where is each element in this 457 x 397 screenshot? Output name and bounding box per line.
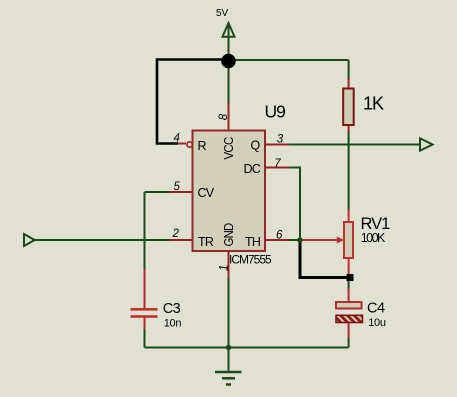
svg-text:3: 3 (277, 134, 284, 146)
svg-text:10u: 10u (368, 317, 386, 329)
svg-text:TR: TR (198, 235, 214, 249)
svg-text:8: 8 (218, 113, 230, 120)
svg-text:C4: C4 (367, 300, 385, 316)
svg-text:5V: 5V (216, 8, 229, 19)
svg-text:Q: Q (251, 139, 261, 153)
svg-text:1K: 1K (363, 93, 384, 113)
svg-text:R: R (198, 139, 207, 153)
svg-text:VCC: VCC (222, 137, 236, 160)
svg-text:U9: U9 (265, 101, 286, 121)
svg-text:GND: GND (222, 223, 236, 247)
svg-text:ICM7555: ICM7555 (229, 253, 272, 267)
svg-text:10n: 10n (164, 318, 182, 330)
svg-text:1: 1 (219, 265, 231, 271)
svg-text:TH: TH (245, 235, 261, 249)
svg-text:100K: 100K (361, 231, 386, 245)
svg-text:7: 7 (274, 158, 281, 170)
svg-text:2: 2 (172, 228, 180, 240)
svg-text:6: 6 (276, 230, 283, 242)
svg-text:CV: CV (198, 186, 215, 200)
svg-text:DC: DC (244, 162, 261, 176)
svg-text:4: 4 (174, 133, 180, 145)
svg-text:C3: C3 (163, 301, 181, 317)
svg-text:5: 5 (174, 181, 181, 193)
